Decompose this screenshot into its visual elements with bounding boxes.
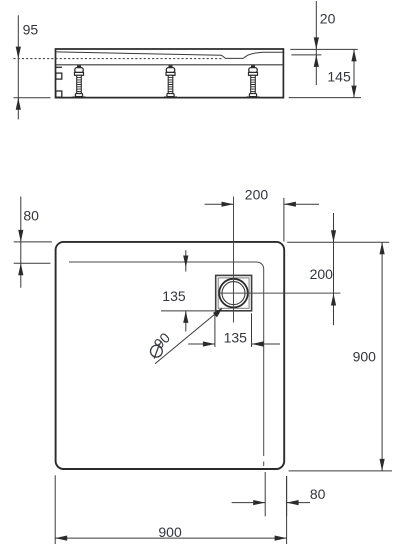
svg-text:135: 135 bbox=[224, 329, 248, 345]
plan view outer square bbox=[56, 242, 285, 469]
svg-text:135: 135 bbox=[162, 288, 186, 304]
dimension 900 bottom extension line right bbox=[286, 476, 288, 544]
dimension 135 horizontal label bbox=[224, 329, 248, 345]
dimension 135 vertical line bbox=[183, 250, 188, 331]
dimension 80 bottom extension line left bbox=[264, 472, 266, 516]
dimension 135 vertical lower extension line bbox=[161, 310, 228, 312]
dimension 80 top-left extension line lower bbox=[14, 262, 51, 264]
drain flange square bbox=[216, 275, 252, 310]
dimension 900 bottom line bbox=[55, 536, 286, 541]
dimension 145 bottom extension line bbox=[289, 97, 361, 99]
dimension 200 top label bbox=[245, 186, 269, 202]
drain horizontal centerline bbox=[219, 292, 340, 294]
drain outer circle bbox=[219, 279, 248, 308]
dimension 20 extension line lower bbox=[291, 54, 321, 56]
svg-text:900: 900 bbox=[353, 349, 377, 365]
plan view inner floor edge (top and right) bbox=[69, 262, 264, 469]
dimension 145 label bbox=[327, 68, 351, 84]
dimension 80 top-left label bbox=[23, 207, 39, 223]
side view tray outline bbox=[56, 49, 284, 98]
dimension 900 bottom label bbox=[158, 524, 182, 540]
side view dashed rim level line bbox=[14, 58, 223, 60]
dimension 900 right extension line bbox=[289, 470, 392, 472]
ground line left extension bbox=[14, 97, 51, 99]
dimension 20 extension line upper bbox=[290, 48, 358, 50]
dimension 200 right extension line bbox=[287, 241, 389, 243]
dimension 80 top-left extension line upper bbox=[14, 241, 52, 243]
drain diameter label bbox=[151, 330, 174, 359]
svg-text:20: 20 bbox=[320, 11, 336, 27]
drain inner circle bbox=[222, 282, 245, 305]
drain vertical centerline bbox=[233, 197, 235, 323]
dimension 200 right label bbox=[310, 266, 334, 282]
svg-text:145: 145 bbox=[327, 68, 351, 84]
svg-text:900: 900 bbox=[158, 524, 182, 540]
dimension 20 label bbox=[320, 11, 336, 27]
side view flange line bbox=[56, 64, 284, 66]
dimension 900 right line bbox=[380, 242, 385, 471]
adjustable foot 2 bbox=[164, 65, 177, 98]
adjustable foot 3 bbox=[247, 65, 260, 98]
dimension 200 top right extension line bbox=[283, 198, 285, 242]
svg-text:80: 80 bbox=[23, 207, 39, 223]
dimension 80 bottom line bbox=[232, 500, 310, 505]
drain diameter leader line bbox=[155, 308, 223, 364]
svg-text:95: 95 bbox=[23, 22, 39, 38]
svg-text:200: 200 bbox=[310, 266, 334, 282]
dimension 95 label bbox=[23, 22, 39, 38]
side view left clip square 2 bbox=[56, 91, 62, 97]
dimension 135 horizontal line bbox=[188, 341, 280, 346]
side view left clip square 1 bbox=[56, 73, 62, 79]
dimension 80 bottom label bbox=[310, 486, 326, 502]
dimension 200 top line bbox=[205, 202, 319, 207]
dimension 95 line bbox=[16, 15, 21, 119]
dimension 145 line bbox=[351, 49, 356, 97]
side view sloped top surface with drain basin bbox=[56, 52, 283, 59]
side view left clip arm bbox=[56, 66, 63, 68]
dimension 900 right label bbox=[353, 349, 377, 365]
adjustable foot 1 bbox=[73, 65, 86, 98]
svg-text:80: 80 bbox=[310, 486, 326, 502]
dimension 135 vertical label bbox=[162, 288, 186, 304]
dimension 80 top-left line bbox=[18, 197, 23, 288]
svg-text:200: 200 bbox=[245, 186, 269, 202]
dimension 135 horizontal left extension line bbox=[214, 313, 216, 347]
dimension 900 bottom extension line left bbox=[54, 475, 56, 544]
dimension 200 right line bbox=[331, 213, 336, 325]
dimension 135 horizontal right extension line bbox=[251, 313, 253, 347]
dimension 80 bottom extension line right bbox=[286, 476, 288, 516]
dimension 20 line bbox=[314, 1, 319, 85]
